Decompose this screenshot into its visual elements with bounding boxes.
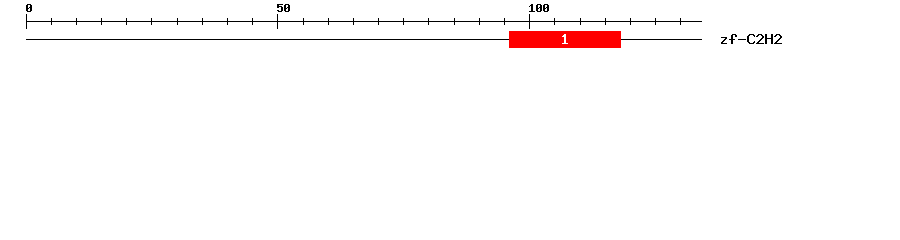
major tick 50 [277,14,278,29]
domain box zf-C2H2 match 1 (residues 96-118) [509,31,621,48]
protein backbone line [26,39,702,40]
major tick 100 [529,14,530,29]
domain name label zf-C2H2 [721,34,782,44]
ruler label 50 [277,4,290,12]
background [0,0,900,58]
minor ticks every 5 residues [51,18,681,25]
ruler label 100 [529,4,549,12]
domain box label 1 [562,34,568,44]
ruler axis line (residues 0-134) [26,21,702,22]
major tick 0 [26,14,27,29]
ruler label 0 [26,4,32,12]
